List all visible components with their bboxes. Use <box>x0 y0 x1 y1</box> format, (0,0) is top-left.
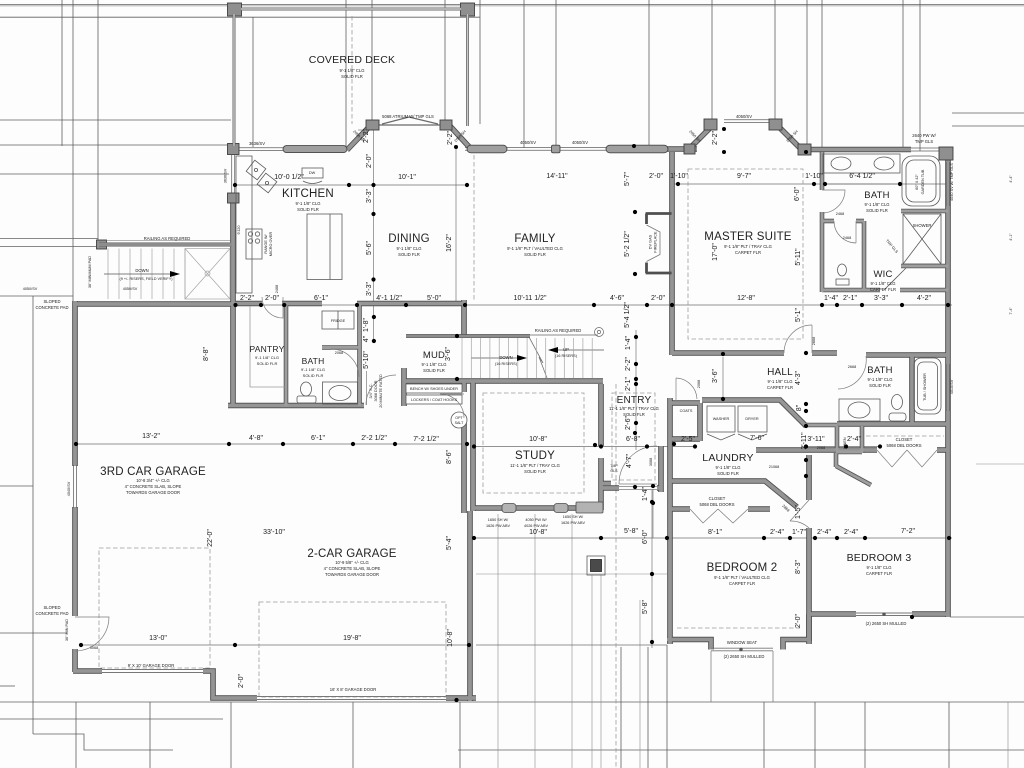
svg-text:2068: 2068 <box>697 380 701 388</box>
svg-text:10'-8": 10'-8" <box>529 436 547 443</box>
svg-text:2'-2": 2'-2" <box>712 131 719 145</box>
svg-text:DINING: DINING <box>388 233 429 245</box>
svg-text:4'-1": 4'-1" <box>1009 233 1013 241</box>
svg-text:(16 RISERS): (16 RISERS) <box>495 362 518 366</box>
svg-text:8'-1": 8'-1" <box>708 529 722 536</box>
svg-text:SHOWER: SHOWER <box>913 223 932 228</box>
svg-text:DW: DW <box>309 171 316 175</box>
svg-text:4050 PW W/: 4050 PW W/ <box>525 518 547 522</box>
svg-text:4": 4" <box>363 335 370 342</box>
svg-text:1'-10": 1'-10" <box>670 173 688 180</box>
svg-text:SOLID FLR: SOLID FLR <box>257 361 278 366</box>
svg-text:36" MINIMUM PAD: 36" MINIMUM PAD <box>88 256 92 289</box>
svg-text:9'-1 1/8" CLG: 9'-1 1/8" CLG <box>767 379 792 384</box>
svg-text:2868: 2868 <box>812 337 816 345</box>
svg-text:4050/SV: 4050/SV <box>520 140 536 145</box>
svg-text:SOLID FLR: SOLID FLR <box>866 208 888 213</box>
svg-text:5068 DBL DOORS: 5068 DBL DOORS <box>700 502 735 507</box>
svg-text:RAILING AS REQUIRED: RAILING AS REQUIRED <box>535 328 582 333</box>
svg-text:9'-1 1/8" CLG: 9'-1 1/8" CLG <box>339 68 364 73</box>
svg-text:2'-0": 2'-0" <box>265 295 279 302</box>
svg-text:4026 PW ABV: 4026 PW ABV <box>524 524 549 528</box>
svg-text:4'-1 1/2": 4'-1 1/2" <box>376 295 402 302</box>
svg-text:DRYER: DRYER <box>745 417 758 421</box>
svg-text:WASHER: WASHER <box>713 417 730 421</box>
svg-text:3636/SV: 3636/SV <box>224 168 228 183</box>
svg-text:LOCKERS / COAT HOOKS: LOCKERS / COAT HOOKS <box>411 398 458 402</box>
svg-text:SOLID FLR: SOLID FLR <box>303 373 324 378</box>
svg-text:2468: 2468 <box>843 236 851 240</box>
svg-text:1'-5": 1'-5" <box>795 505 802 519</box>
svg-text:1'-4": 1'-4" <box>642 487 649 501</box>
svg-text:SOLID FLR: SOLID FLR <box>717 471 739 476</box>
svg-text:SLOPED: SLOPED <box>44 299 61 304</box>
svg-text:19'-8": 19'-8" <box>343 635 361 642</box>
svg-text:3068: 3068 <box>649 458 653 466</box>
svg-text:5'-1": 5'-1" <box>795 308 802 322</box>
svg-text:2068: 2068 <box>335 351 343 355</box>
svg-text:CARPET FLR: CARPET FLR <box>866 571 892 576</box>
svg-text:3636/SV: 3636/SV <box>249 141 265 146</box>
svg-text:9'-1 1/8" CLG: 9'-1 1/8" CLG <box>396 246 421 251</box>
svg-text:FRIDGE: FRIDGE <box>331 319 346 323</box>
svg-text:SOLID FLR: SOLID FLR <box>423 368 445 373</box>
svg-text:4'-8": 4'-8" <box>249 435 263 442</box>
svg-text:3068: 3068 <box>90 646 98 650</box>
svg-text:CLOSET: CLOSET <box>896 437 913 442</box>
svg-text:3068 DOOR: 3068 DOOR <box>374 380 378 401</box>
svg-text:9'-1 1/8" CLG: 9'-1 1/8" CLG <box>295 201 320 206</box>
svg-text:4'-6": 4'-6" <box>610 295 624 302</box>
svg-text:SOLID FLR: SOLID FLR <box>341 74 363 79</box>
svg-text:9'-1 1/8" CLG: 9'-1 1/8" CLG <box>715 465 740 470</box>
svg-text:8": 8" <box>796 404 803 411</box>
svg-text:4'-3": 4'-3" <box>795 371 802 385</box>
svg-text:(2) 2650 SH MULLED: (2) 2650 SH MULLED <box>866 621 907 626</box>
svg-text:5'-11": 5'-11" <box>795 248 802 266</box>
svg-text:9'-1 1/8" CLG: 9'-1 1/8" CLG <box>255 355 279 360</box>
svg-text:LAUNDRY: LAUNDRY <box>702 452 753 464</box>
svg-text:6'-0": 6'-0" <box>642 530 649 544</box>
svg-text:2668: 2668 <box>848 365 856 369</box>
svg-text:5'-7": 5'-7" <box>624 172 631 186</box>
svg-text:1'-8": 1'-8" <box>363 318 370 332</box>
svg-text:9'J20: 9'J20 <box>237 226 241 235</box>
svg-text:BENCH W/ SHOES UNDER: BENCH W/ SHOES UNDER <box>410 387 458 391</box>
svg-text:CARPET FLR: CARPET FLR <box>729 581 755 586</box>
svg-text:5068 DBL DOORS: 5068 DBL DOORS <box>887 443 922 448</box>
svg-text:DOWN: DOWN <box>499 355 512 360</box>
svg-text:10'-1": 10'-1" <box>398 174 416 181</box>
svg-text:2'-5": 2'-5" <box>681 436 695 443</box>
svg-text:SOLID FLR: SOLID FLR <box>524 469 546 474</box>
svg-text:DV GAS: DV GAS <box>649 234 653 249</box>
svg-text:(16 RISERS): (16 RISERS) <box>555 354 578 358</box>
svg-text:SOLID FLR: SOLID FLR <box>398 252 420 257</box>
svg-text:ENTRY: ENTRY <box>617 395 652 406</box>
svg-text:9' X 10' GARAGE DOOR: 9' X 10' GARAGE DOOR <box>128 663 175 668</box>
svg-text:6'-0": 6'-0" <box>794 187 801 201</box>
svg-text:2'-4": 2'-4" <box>817 529 831 536</box>
svg-text:8'-8": 8'-8" <box>203 347 210 361</box>
svg-text:KITCHEN: KITCHEN <box>282 188 334 200</box>
svg-text:COVERED DECK: COVERED DECK <box>309 54 395 66</box>
svg-text:MUD: MUD <box>423 350 445 361</box>
svg-text:CLOSET: CLOSET <box>709 496 726 501</box>
svg-text:3/4" S.C.: 3/4" S.C. <box>369 383 373 398</box>
svg-text:1626 PW ABV: 1626 PW ABV <box>561 521 586 525</box>
svg-text:8'-3": 8'-3" <box>795 560 802 574</box>
svg-text:(9 +/- RISERS, FIELD VERIFY): (9 +/- RISERS, FIELD VERIFY) <box>119 277 173 281</box>
svg-text:3'-11": 3'-11" <box>807 436 825 443</box>
svg-text:4010/SV: 4010/SV <box>950 379 954 394</box>
svg-text:3'-3": 3'-3" <box>366 282 373 296</box>
svg-text:3RD CAR GARAGE: 3RD CAR GARAGE <box>100 466 206 478</box>
svg-text:9'-1 1/8" CLG: 9'-1 1/8" CLG <box>867 377 892 382</box>
svg-text:6'-1": 6'-1" <box>314 295 328 302</box>
svg-text:MASTER SUITE: MASTER SUITE <box>704 231 792 243</box>
svg-text:PANTRY: PANTRY <box>250 344 285 354</box>
svg-text:TMP GLS: TMP GLS <box>915 139 934 144</box>
svg-text:2'-4": 2'-4" <box>844 529 858 536</box>
svg-text:14'-11": 14'-11" <box>546 173 568 180</box>
svg-text:2068: 2068 <box>817 446 825 450</box>
svg-text:5'-4 1/2": 5'-4 1/2" <box>624 302 631 328</box>
svg-text:1650 SH W/: 1650 SH W/ <box>563 515 584 519</box>
svg-text:2'-2": 2'-2" <box>625 357 632 371</box>
svg-text:2'-4": 2'-4" <box>847 436 861 443</box>
svg-text:10'-8": 10'-8" <box>529 529 547 536</box>
svg-text:4" CONCRETE SLAB, SLOPE: 4" CONCRETE SLAB, SLOPE <box>324 566 381 571</box>
svg-text:5'-6": 5'-6" <box>366 241 373 255</box>
svg-text:3'-3": 3'-3" <box>874 295 888 302</box>
svg-text:10'-0 1/2": 10'-0 1/2" <box>274 174 304 181</box>
svg-text:2'-4": 2'-4" <box>770 529 784 536</box>
svg-text:5068 ATRIUM W/ TMP GLS: 5068 ATRIUM W/ TMP GLS <box>382 114 434 119</box>
svg-text:SOLID FLR: SOLID FLR <box>297 207 319 212</box>
svg-text:3'-3": 3'-3" <box>366 189 373 203</box>
svg-text:9'-1 1/8" CLG: 9'-1 1/8" CLG <box>864 202 889 207</box>
svg-text:9'-1 1/8" CLG: 9'-1 1/8" CLG <box>870 281 895 286</box>
svg-text:9'-1 1/8" PLT / TRAY CLG: 9'-1 1/8" PLT / TRAY CLG <box>724 244 772 249</box>
svg-text:11'-1 1/8" PLT / TRAY CLG: 11'-1 1/8" PLT / TRAY CLG <box>510 463 560 468</box>
svg-text:2'-1": 2'-1" <box>843 295 857 302</box>
svg-text:6'-4 1/2": 6'-4 1/2" <box>849 173 875 180</box>
svg-text:6'-1": 6'-1" <box>311 435 325 442</box>
svg-text:4050/SV: 4050/SV <box>23 287 38 291</box>
svg-text:3'-6": 3'-6" <box>712 369 719 383</box>
svg-text:FIREPLACE: FIREPLACE <box>654 231 658 253</box>
svg-text:4040 SV W/ TMP GLS: 4040 SV W/ TMP GLS <box>950 163 954 201</box>
svg-text:BATH: BATH <box>867 365 892 376</box>
svg-text:TMP: TMP <box>610 464 618 468</box>
svg-text:7'-6": 7'-6" <box>750 435 764 442</box>
svg-text:5'-8": 5'-8" <box>624 528 638 535</box>
svg-text:1'-4": 1'-4" <box>625 336 632 350</box>
svg-text:DOWN: DOWN <box>135 268 148 273</box>
svg-text:9'-1 1/8" PLT / VAULTED CLG: 9'-1 1/8" PLT / VAULTED CLG <box>714 575 770 580</box>
svg-text:4040/SV: 4040/SV <box>67 481 71 496</box>
svg-text:TUB / SHOWER: TUB / SHOWER <box>923 373 927 401</box>
svg-text:11'-1 1/8" PLT / TRAY CLG: 11'-1 1/8" PLT / TRAY CLG <box>609 406 659 411</box>
svg-text:5'-2 1/2": 5'-2 1/2" <box>624 231 631 257</box>
svg-text:10'-8": 10'-8" <box>447 629 454 647</box>
svg-text:2'-0": 2'-0" <box>795 614 802 628</box>
svg-text:10'-11 1/2": 10'-11 1/2" <box>514 295 547 302</box>
svg-text:5'-4": 5'-4" <box>446 536 453 550</box>
svg-text:SOLID FLR: SOLID FLR <box>869 383 891 388</box>
svg-text:CARPET FLR: CARPET FLR <box>767 385 793 390</box>
svg-text:4050/SV: 4050/SV <box>123 287 138 291</box>
svg-text:BEDROOM 2: BEDROOM 2 <box>707 562 778 574</box>
svg-text:TOWARDS GARAGE DOOR: TOWARDS GARAGE DOOR <box>126 490 180 495</box>
svg-text:16'-2": 16'-2" <box>446 234 453 252</box>
svg-text:CONCRETE PAD: CONCRETE PAD <box>36 611 69 616</box>
svg-text:13'-2": 13'-2" <box>142 433 160 440</box>
svg-text:SALT: SALT <box>455 421 465 425</box>
svg-text:4" CONCRETE SLAB, SLOPE: 4" CONCRETE SLAB, SLOPE <box>125 484 182 489</box>
svg-text:1'-7": 1'-7" <box>792 529 806 536</box>
svg-text:WIC: WIC <box>873 269 892 280</box>
svg-text:BATH: BATH <box>864 190 889 201</box>
svg-text:BEDROOM 3: BEDROOM 3 <box>847 552 912 564</box>
svg-text:UP: UP <box>563 347 569 352</box>
svg-text:RAILING AS REQUIRED: RAILING AS REQUIRED <box>144 236 191 241</box>
svg-text:2'-0": 2'-0" <box>238 674 245 688</box>
svg-text:SOLID FLR: SOLID FLR <box>524 252 546 257</box>
svg-text:4'-7": 4'-7" <box>626 454 633 468</box>
svg-text:2'-2": 2'-2" <box>447 131 454 145</box>
svg-text:WINDOW SEAT: WINDOW SEAT <box>727 640 758 645</box>
svg-text:7'-2": 7'-2" <box>901 528 915 535</box>
svg-text:(2) 2650 SH MULLED: (2) 2650 SH MULLED <box>724 654 765 659</box>
svg-text:16' X 8' GARAGE DOOR: 16' X 8' GARAGE DOOR <box>330 687 377 692</box>
svg-text:10'-9 5/8" +/- CLG: 10'-9 5/8" +/- CLG <box>335 560 369 565</box>
svg-text:9'-1 1/8" CLG: 9'-1 1/8" CLG <box>866 565 891 570</box>
svg-text:12'-8": 12'-8" <box>737 295 755 302</box>
svg-text:7'-4": 7'-4" <box>1009 307 1013 315</box>
svg-text:MICRO OVER: MICRO OVER <box>269 232 273 257</box>
svg-text:20 MINUTE RATED: 20 MINUTE RATED <box>379 374 383 408</box>
svg-text:5'-0": 5'-0" <box>427 295 441 302</box>
svg-text:LINEN: LINEN <box>843 437 847 448</box>
svg-text:4'-4": 4'-4" <box>1009 175 1013 183</box>
svg-text:GLS: GLS <box>610 469 618 473</box>
svg-text:9'-1 1/8" CLG: 9'-1 1/8" CLG <box>301 367 325 372</box>
svg-text:2'-1": 2'-1" <box>625 377 632 391</box>
svg-text:60" X 42": 60" X 42" <box>915 173 919 189</box>
svg-text:1650 SH W/: 1650 SH W/ <box>488 518 509 522</box>
svg-text:2'-2 1/2": 2'-2 1/2" <box>361 435 387 442</box>
svg-text:2'-0": 2'-0" <box>366 154 373 168</box>
svg-text:1'-10": 1'-10" <box>805 173 823 180</box>
svg-text:SLOPED: SLOPED <box>44 605 61 610</box>
svg-text:OPT: OPT <box>455 416 463 420</box>
svg-text:4050/SV: 4050/SV <box>736 114 752 119</box>
svg-text:13'-0": 13'-0" <box>149 635 167 642</box>
svg-text:2'-0": 2'-0" <box>649 173 663 180</box>
svg-text:2'-0": 2'-0" <box>651 295 665 302</box>
svg-text:CARPET FLR: CARPET FLR <box>870 287 896 292</box>
svg-text:9'-7": 9'-7" <box>737 173 751 180</box>
svg-text:STUDY: STUDY <box>515 450 555 462</box>
svg-text:CONCRETE PAD: CONCRETE PAD <box>36 305 69 310</box>
svg-text:4'-2": 4'-2" <box>917 295 931 302</box>
svg-text:HALL: HALL <box>767 367 793 378</box>
svg-text:CARPET FLR: CARPET FLR <box>735 250 761 255</box>
svg-text:GARDEN TUB: GARDEN TUB <box>921 169 925 194</box>
svg-text:COATS: COATS <box>680 409 693 413</box>
svg-text:36" MIN PAD: 36" MIN PAD <box>65 619 69 641</box>
svg-text:8'-6": 8'-6" <box>446 450 453 464</box>
svg-text:10'-8 3/4" +/- CLG: 10'-8 3/4" +/- CLG <box>136 478 170 483</box>
svg-text:1626 PW ABV: 1626 PW ABV <box>486 524 511 528</box>
svg-text:2'-2": 2'-2" <box>240 295 254 302</box>
svg-text:4050/SV: 4050/SV <box>572 140 588 145</box>
svg-text:9'-1 1/8" CLG: 9'-1 1/8" CLG <box>421 362 446 367</box>
svg-text:9'-1 1/8" PLT / VAULTED CLG: 9'-1 1/8" PLT / VAULTED CLG <box>507 246 563 251</box>
svg-text:FAMILY: FAMILY <box>514 233 555 245</box>
svg-text:5'-10": 5'-10" <box>363 351 370 369</box>
svg-text:1'-4": 1'-4" <box>824 295 838 302</box>
svg-text:7'-2 1/2": 7'-2 1/2" <box>413 436 439 443</box>
svg-text:2-CAR GARAGE: 2-CAR GARAGE <box>307 548 396 560</box>
svg-text:6'-8": 6'-8" <box>626 436 640 443</box>
svg-text:2468: 2468 <box>836 212 844 216</box>
svg-text:22'-0": 22'-0" <box>207 529 214 547</box>
svg-text:BATH: BATH <box>302 356 325 366</box>
svg-text:TOWARDS GARAGE DOOR: TOWARDS GARAGE DOOR <box>325 572 379 577</box>
svg-text:2'-11": 2'-11" <box>801 432 808 450</box>
svg-text:17'-0": 17'-0" <box>712 243 719 261</box>
svg-text:21068: 21068 <box>769 465 780 469</box>
svg-text:2640 PW W/: 2640 PW W/ <box>912 133 936 138</box>
svg-text:33'-10": 33'-10" <box>263 529 285 536</box>
svg-text:2'-6": 2'-6" <box>625 416 632 430</box>
svg-text:3'-6": 3'-6" <box>445 347 452 361</box>
svg-text:2468: 2468 <box>275 285 279 293</box>
svg-text:5'-8": 5'-8" <box>642 600 649 614</box>
svg-text:RANGE W/: RANGE W/ <box>264 233 268 253</box>
